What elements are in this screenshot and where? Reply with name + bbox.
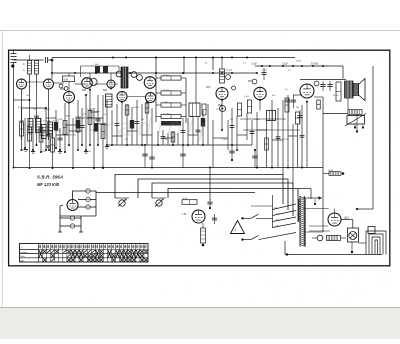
wire bus y57 [52,57,295,59]
svg-text:50.000: 50.000 [62,134,68,136]
page left edge [1,31,3,308]
svg-text:Lampes: Lampes [20,252,27,254]
tube V8 [144,77,156,89]
wire [209,168,211,201]
wire heater [309,226,330,231]
socket lamp 2 [86,197,90,201]
resistor R22 [312,235,346,241]
resistor R10 [156,75,186,80]
parts table [20,244,149,263]
wire [212,58,214,71]
svg-text:300: 300 [141,119,144,121]
tube V10 [216,88,228,100]
wire [155,58,157,75]
svg-text:0,5W: 0,5W [328,170,333,172]
svg-text:0,1µF: 0,1µF [222,139,228,141]
wire with component [33,89,39,146]
resistor R25 [285,98,289,112]
wire [53,110,60,149]
wire with component [79,108,85,146]
tube V11 [254,87,266,99]
switch S1 [241,214,272,219]
svg-text:25.000: 25.000 [70,135,77,137]
svg-text:0,1µF: 0,1µF [80,117,86,119]
wire transformer HV lead [298,189,311,200]
socket lamp 4 [70,216,74,220]
grid cap [314,81,319,86]
gang condenser circle [90,78,97,85]
svg-text:f: f [235,229,236,233]
wire with component [95,95,101,146]
wire [195,57,197,104]
wire mains w1 [115,175,283,205]
resistor R18 [323,110,362,115]
wire [304,231,323,233]
wire connector group [14,89,303,140]
resistor R12 [156,102,186,107]
tube V14 rectifier 80 [328,213,341,226]
coil A1 [23,55,32,100]
wire [292,124,294,187]
wire [115,197,129,199]
wire [314,96,323,98]
wire [83,95,88,151]
wire with component [38,118,45,153]
page top edge [0,30,400,32]
capacitor C32 [180,145,186,168]
svg-text:0,1µF: 0,1µF [244,96,250,98]
tube V4 [82,78,93,89]
IF transformer T2 [189,103,200,117]
potentiometer box [345,114,366,129]
wire [30,120,35,151]
capacitor C21 [291,95,296,108]
wire with component [161,130,166,145]
grid cap circle [137,75,143,81]
ground tick group [24,146,110,153]
svg-text:0,5MΩ: 0,5MΩ [40,151,46,153]
resistor R16 [295,112,299,124]
svg-text:6A7: 6A7 [206,85,211,89]
svg-text:0,5MΩ: 0,5MΩ [57,119,63,121]
IF transformer T1 [121,67,128,88]
wire [212,120,214,168]
capacitor C33 [229,145,235,161]
wire [167,133,169,145]
grid cap circle [131,72,137,78]
wire [300,79,346,81]
svg-text:6D6: 6D6 [64,78,69,81]
wire [66,103,71,146]
wire with component [230,108,235,145]
svg-text:100: 100 [125,139,128,141]
tube V5 [107,80,115,88]
wire [21,89,23,140]
wire HT [341,220,353,229]
wire with component [46,120,52,151]
resistor R24 [202,104,206,115]
wire [104,100,109,146]
wire mains w5 [96,192,255,194]
trimmer P2 [155,199,164,206]
dial lamp tube [67,200,78,211]
grid cap [226,75,231,80]
capacitor C40 [207,199,212,209]
capacitor C25 [297,110,302,124]
wire [236,116,238,151]
svg-text:25.000: 25.000 [163,90,170,92]
wire [141,104,143,146]
capacitor C20 [285,95,290,108]
wire with component [171,131,175,146]
tube V13 rectifier LBB [192,210,205,223]
wire with component [181,118,186,145]
svg-text:300: 300 [165,139,168,141]
svg-text:25.000: 25.000 [226,70,233,72]
wire ladder right [185,78,187,123]
wire with component [49,122,54,169]
capacitor C41 [212,214,217,224]
resistor R15 [247,100,251,113]
wire mains w3 [152,183,293,216]
schematic frame [9,50,390,266]
switch S2 [241,235,258,240]
tube V3 [64,92,75,103]
wire with component [57,128,63,151]
power transformer core [300,196,304,247]
wire [271,100,273,169]
wire with component [125,104,129,146]
wire lamp feed [95,191,97,193]
wire [91,108,96,169]
voltage selector tap 110 [273,204,297,210]
svg-text:0,1: 0,1 [203,121,206,123]
svg-text:0,1µF: 0,1µF [251,64,258,66]
wire mains w2 [138,179,288,210]
wire [70,118,77,169]
voltage selector tap 220 [273,223,297,228]
wire lamp lower [58,205,96,232]
svg-text:Volts: Volts [20,255,25,258]
resistor R13 [156,114,186,119]
svg-text:0,5MΩ: 0,5MΩ [18,121,24,123]
capacitor blob group [54,118,205,132]
svg-text:radiotj: radiotj [104,112,210,142]
capacitor C23 [327,81,333,91]
wire B+ right [322,97,324,232]
bus bottom [285,241,382,256]
svg-text:100: 100 [96,111,99,113]
grid cap [252,79,257,84]
svg-text:25.000: 25.000 [216,109,222,111]
tube V3 label box [63,76,75,92]
label cluster gang [95,64,108,73]
svg-text:S.B.R. 396A: S.B.R. 396A [37,175,63,180]
speaker [353,79,365,101]
tube V2 [44,79,54,89]
wire [22,118,26,149]
svg-text:160: 160 [276,220,279,222]
svg-text:50.000: 50.000 [311,64,319,66]
wire [131,107,133,145]
IF transformer T3 [267,111,276,121]
svg-text:0,1µF: 0,1µF [262,70,268,72]
svg-text:50.000: 50.000 [333,95,339,97]
resistor R21 [201,223,206,246]
wire [48,89,50,140]
node [112,57,114,59]
wire [121,102,123,145]
grid circle [59,84,63,88]
svg-text:1 MΩ: 1 MΩ [163,102,168,104]
wire [342,66,344,79]
svg-text:300Ω: 300Ω [296,61,301,63]
svg-text:50.000: 50.000 [163,75,170,77]
resistor R26 [317,100,321,109]
svg-text:2MΩ: 2MΩ [66,116,71,118]
wire y119 [240,118,286,120]
antenna coil [11,50,17,67]
wire [207,104,209,145]
svg-text:220: 220 [276,226,279,228]
wire with component [18,108,24,151]
wire with component [87,90,93,146]
wire mains w4 [168,189,298,223]
wire [246,113,248,140]
resistor R20 [182,198,197,204]
wire with component [63,103,67,153]
capacitor C1 [46,57,52,63]
svg-text:100: 100 [26,95,29,97]
wire [306,102,308,168]
svg-text:110: 110 [274,208,277,210]
wire with component [250,120,255,145]
node [314,199,316,205]
svg-text:300: 300 [230,119,233,121]
resistor R11 [156,90,186,95]
tube V12 [300,84,314,98]
svg-text:300: 300 [296,107,299,109]
capacitor C31 [149,145,155,168]
capacitor C24 [261,68,266,80]
IF coil canister [106,94,113,107]
wire [256,112,258,169]
wire ladder left [155,74,157,122]
bus AVC y145 [108,144,252,146]
wire with component [276,108,281,168]
grid cap circle [116,71,122,77]
power transformer secondary winding [305,199,306,247]
resistor R17 [336,82,341,101]
capacitor C22 [320,81,326,91]
wire [43,108,50,151]
socket lamp 3 [86,205,90,209]
filter capacitor can [348,228,359,253]
wire arrow HV [303,196,323,200]
wire top-left [14,59,44,61]
wire [297,124,299,168]
svg-text:130: 130 [276,214,279,216]
coil A2 [23,61,39,90]
wire HT down right [356,66,373,210]
svg-text:0,5MΩ: 0,5MΩ [254,119,260,121]
svg-text:25.000: 25.000 [283,139,289,141]
svg-text:100: 100 [317,104,320,106]
wire [359,242,367,244]
svg-text:0,5MΩ: 0,5MΩ [133,107,139,109]
wire selector feed [251,195,273,228]
wire [259,100,261,111]
wire with component [196,117,201,145]
wire [287,108,289,169]
voltage selector tap 130 [273,211,297,216]
wire with component [100,95,107,169]
tube V1 [17,79,27,89]
wire [152,197,166,199]
wire [221,100,223,132]
wire [334,209,336,214]
svg-text:MF 123 K/B: MF 123 K/B [37,182,59,187]
svg-text:50.000: 50.000 [44,109,50,111]
wire [192,117,194,145]
wire y130 [243,129,300,131]
page bottom edge [0,307,400,309]
capacitor C30 [142,145,148,168]
wire [51,60,53,79]
coil L3 [220,58,225,84]
svg-text:300: 300 [272,95,275,97]
svg-text:L.B.: L.B. [182,212,187,216]
svg-text:4,5V: 4,5V [183,198,188,200]
wire with component [145,102,149,145]
wire [282,100,284,175]
power transformer primary winding [299,199,300,222]
svg-text:0,5MΩ: 0,5MΩ [87,109,93,111]
warning triangle [231,221,245,234]
wire with component [75,100,81,151]
grid cap [232,86,236,90]
wire [356,114,358,132]
resistor R1 hatched [28,119,33,133]
resistor R2 hatched [36,119,41,133]
resistor R14 [237,103,241,116]
wire antenna down [13,63,15,169]
terminal loops [366,227,386,255]
page lower margin shade [0,308,400,340]
wire [303,208,329,210]
socket lamp 1 [86,189,90,193]
wire with component [115,104,120,145]
trimmer P1 [118,199,127,206]
tube V9 [146,93,156,103]
node J1 [51,59,54,62]
junction dot group [28,56,324,109]
wire with component [265,121,269,168]
wire [157,131,159,146]
wire with component [135,100,140,145]
wire upper link [81,66,120,77]
wire [183,57,185,75]
resistor R19 [323,170,344,175]
wire bus y66 [255,65,343,67]
resistor R4 hatched [48,122,53,136]
tube V10 cathode circle [220,106,226,112]
wire with component [26,100,31,169]
wire tube links [27,73,146,97]
misc labels [18,89,339,153]
output transformer [345,81,354,110]
node [125,57,127,59]
resistor R3 hatched [42,125,47,139]
wire [111,110,113,146]
socket lamp 5 [70,224,74,228]
wire [177,133,179,145]
svg-text:0,1µF: 0,1µF [86,151,92,153]
wire [187,118,189,146]
wire mains lower diagonal [259,233,297,240]
capacitor C34 [252,149,258,168]
wire lamp loop [73,191,97,216]
voltage selector tap 160 [273,217,297,222]
wire bus y73 [52,72,257,74]
speckle noise [5,33,397,306]
bus ground y167.5 [13,167,324,169]
wire [202,110,204,146]
wire with component [300,105,305,169]
grid circle [64,87,68,91]
wire [227,120,229,150]
tube V6 [117,92,127,102]
resistor R13b dark [161,121,181,126]
wire [151,108,153,145]
